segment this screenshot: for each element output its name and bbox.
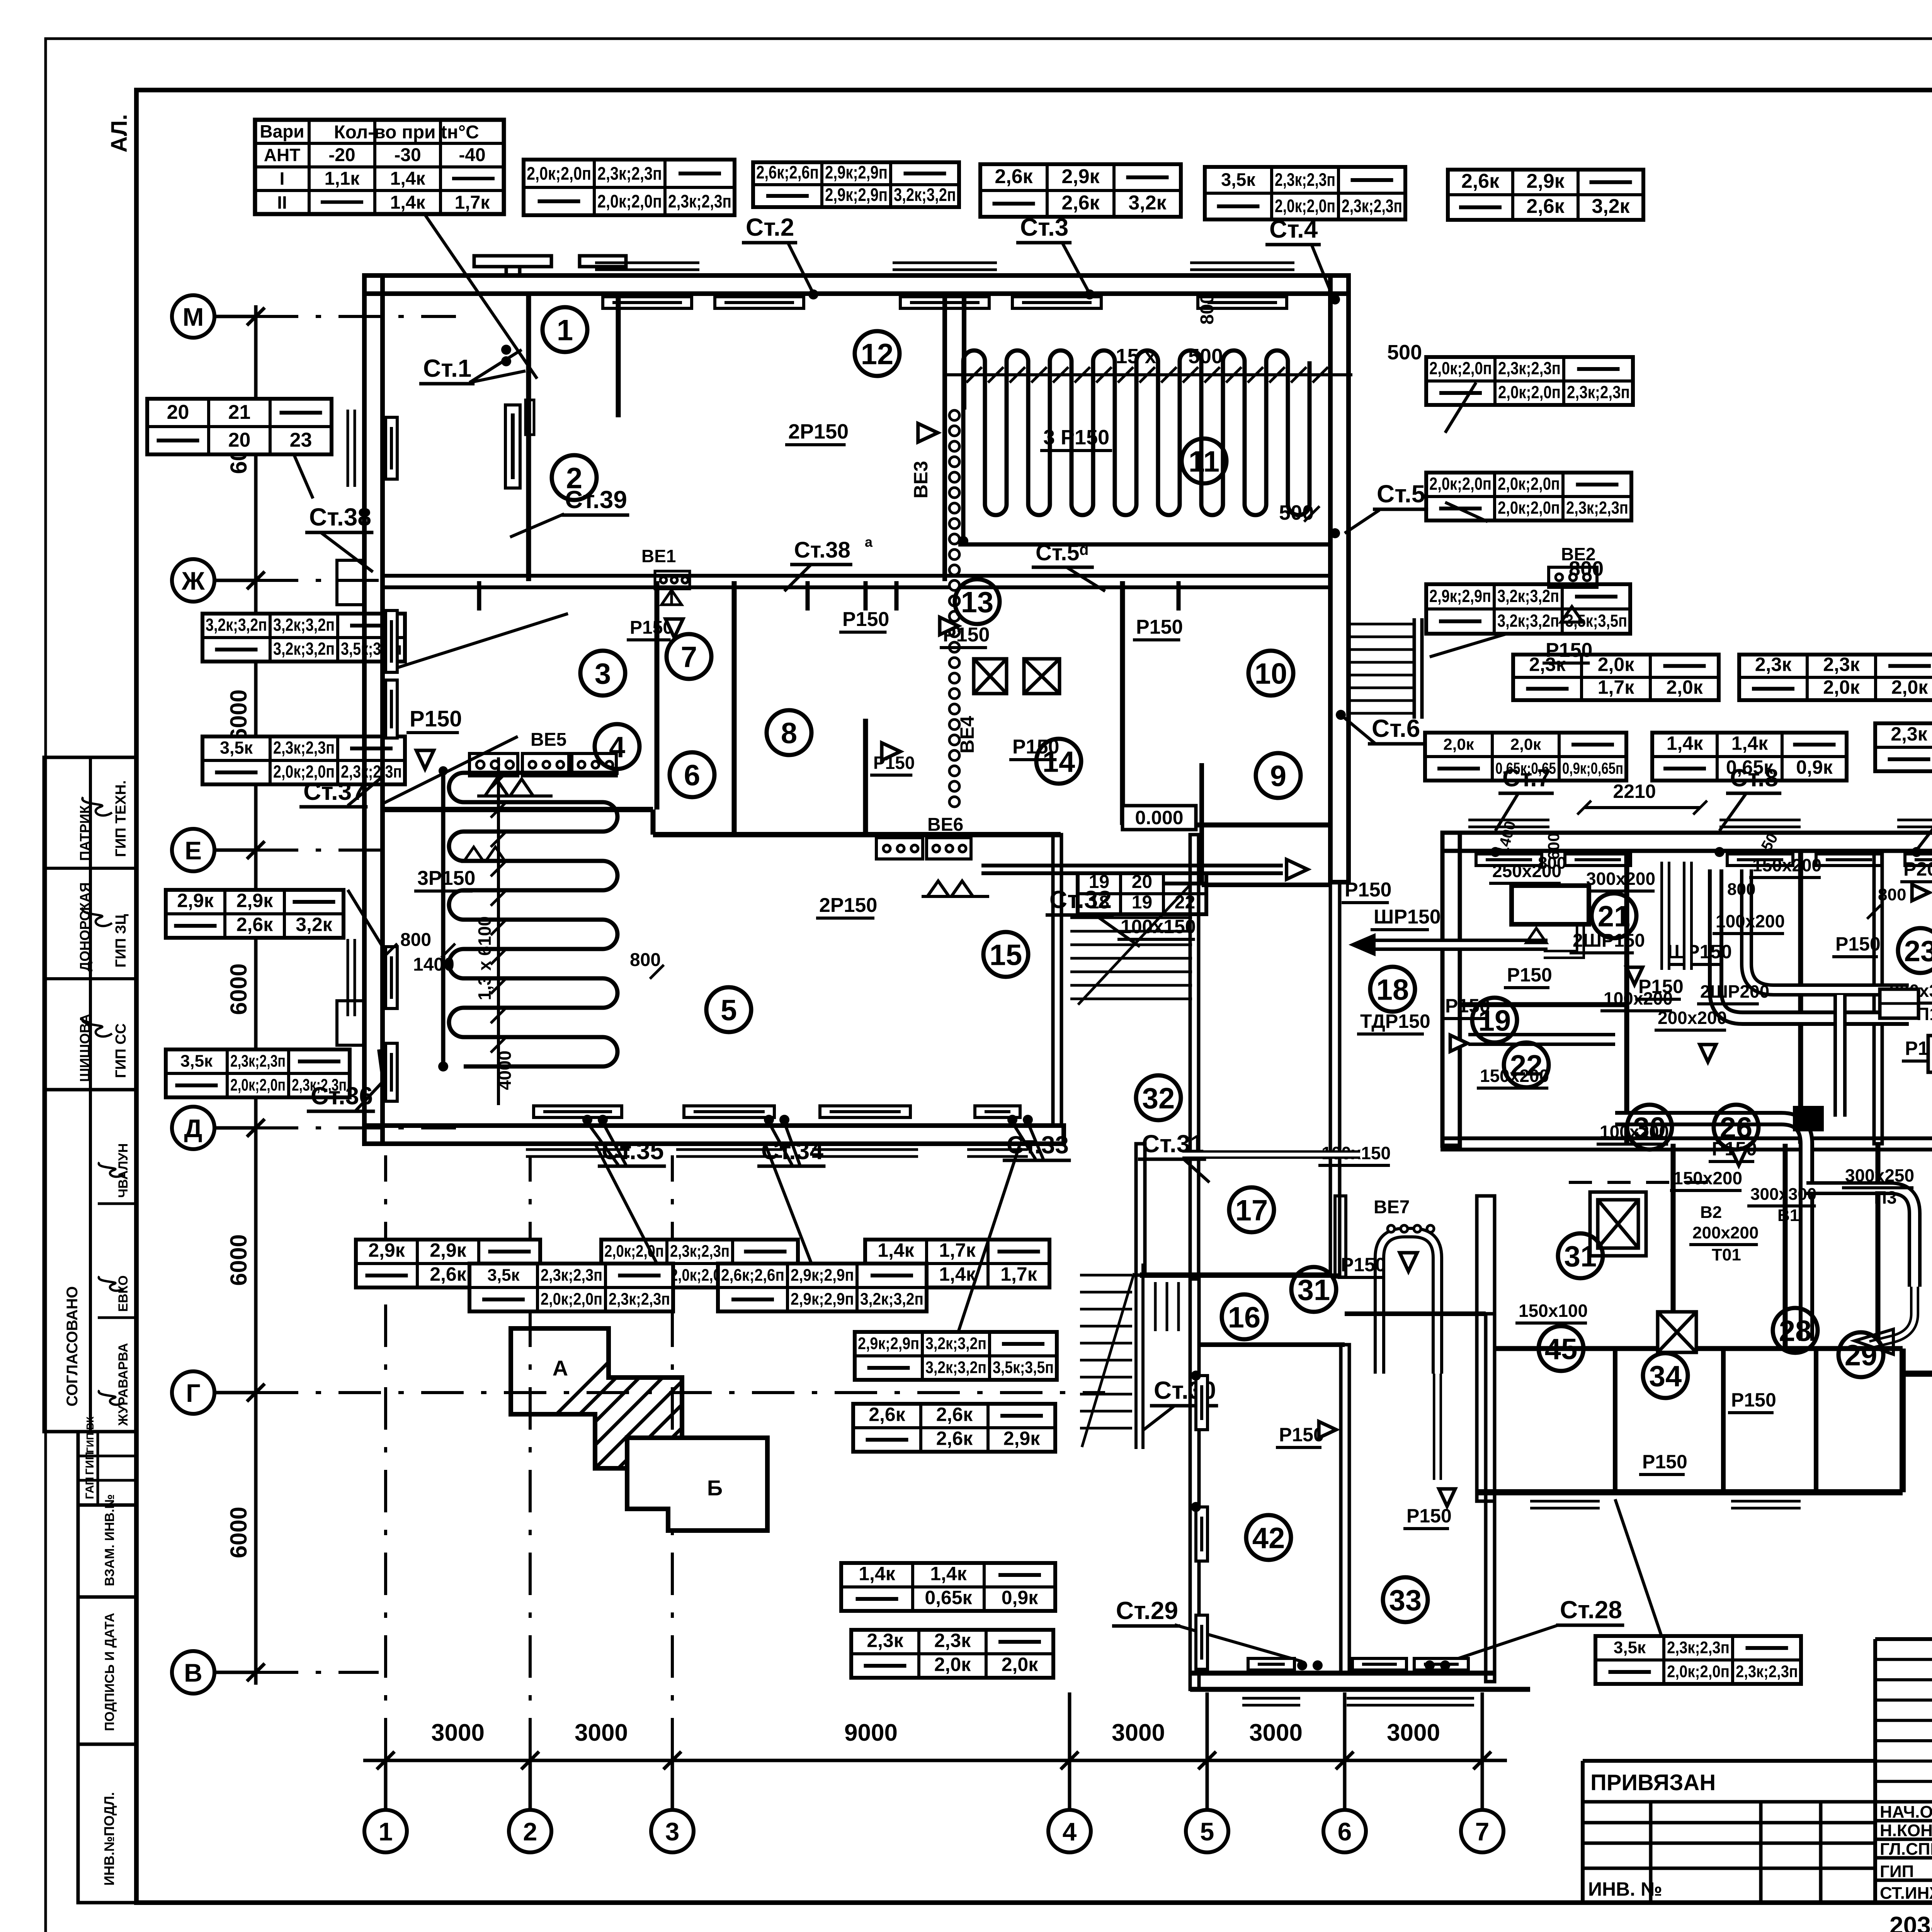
- VE1: [655, 571, 690, 589]
- svg-text:6: 6: [684, 759, 700, 792]
- svg-text:Ст.2: Ст.2: [746, 213, 794, 241]
- svg-text:СТ.ИНЖ.: СТ.ИНЖ.: [1880, 1884, 1932, 1903]
- svg-text:АЛ.: АЛ.: [107, 114, 132, 152]
- wall 34 v: [1613, 1349, 1617, 1492]
- svg-text:Р150: Р150: [1731, 1389, 1776, 1411]
- wall rooms9-10: [1122, 823, 1330, 828]
- svg-text:9000: 9000: [844, 1719, 898, 1746]
- svg-text:2,3к: 2,3к: [934, 1630, 971, 1651]
- svg-text:2,3к;2,3п: 2,3к;2,3п: [668, 191, 731, 211]
- room 15: [983, 932, 1028, 977]
- valve symbol: [1450, 1035, 1468, 1051]
- svg-text:-40: -40: [459, 145, 485, 165]
- wall 26-28: [1783, 1144, 1788, 1349]
- radiator: [715, 297, 804, 308]
- svg-text:2,3к;2,3п: 2,3к;2,3п: [1567, 383, 1630, 402]
- value table: [1425, 733, 1626, 781]
- svg-text:15: 15: [990, 939, 1022, 971]
- stamp vzam inv: [78, 1505, 136, 1597]
- valve symbol: [1319, 1422, 1336, 1438]
- radiator: [386, 1043, 397, 1101]
- stamp block signatures: [44, 757, 136, 1090]
- svg-text:ГИП СС: ГИП СС: [113, 1023, 129, 1078]
- svg-text:7: 7: [1475, 1817, 1490, 1846]
- stack label Ст.5ᵅ: [1032, 540, 1094, 567]
- stair room 15/32: [1070, 885, 1192, 1005]
- svg-text:ГИП ЗЦ: ГИП ЗЦ: [113, 914, 129, 968]
- valve near VE5: [417, 750, 434, 769]
- svg-text:2,3к: 2,3к: [1891, 723, 1928, 745]
- svg-text:ЖУРАВАРВА: ЖУРАВАРВА: [116, 1343, 131, 1426]
- svg-text:9: 9: [1270, 760, 1286, 793]
- label Р150: [1504, 964, 1552, 988]
- svg-text:Р150: Р150: [1642, 1451, 1687, 1473]
- room 32: [1136, 1075, 1181, 1120]
- svg-text:1,4к: 1,4к: [1667, 733, 1704, 754]
- vestibule right wall: [1330, 882, 1340, 1275]
- svg-text:10: 10: [1255, 657, 1287, 690]
- duct P2 main L: [1716, 869, 1909, 1018]
- bottom block top wall 42: [1199, 1342, 1345, 1347]
- room 9: [1256, 753, 1301, 798]
- room 10: [1248, 651, 1293, 696]
- svg-text:300х250: 300х250: [1845, 1165, 1914, 1185]
- svg-text:11: 11: [1189, 445, 1219, 478]
- room 23: [1898, 928, 1932, 973]
- svg-text:Ст.1: Ст.1: [423, 354, 471, 382]
- value table: [1875, 723, 1932, 771]
- VE5 heater unit: [469, 753, 518, 776]
- svg-text:17: 17: [1235, 1194, 1268, 1227]
- svg-text:ПАТРИК: ПАТРИК: [77, 805, 93, 861]
- entrance canopy 2: [580, 256, 626, 267]
- svg-text:Ст.5ᵅ: Ст.5ᵅ: [1036, 540, 1088, 565]
- label 100х200: [1600, 988, 1673, 1011]
- coil dim line 2: [497, 757, 500, 1105]
- title block: [1875, 1637, 1932, 1641]
- label Р150: [1635, 976, 1684, 999]
- svg-text:2,0к;2,0п: 2,0к;2,0п: [597, 191, 662, 211]
- svg-text:22: 22: [1510, 1049, 1543, 1082]
- svg-text:А: А: [553, 1356, 568, 1380]
- svg-text:2,3к;2,3п: 2,3к;2,3п: [541, 1266, 602, 1285]
- svg-text:2,0к: 2,0к: [1443, 735, 1474, 753]
- svg-text:15 х: 15 х: [1116, 345, 1156, 368]
- stack label Ст.36: [307, 1082, 375, 1111]
- radiator: [1727, 854, 1793, 866]
- svg-text:Р150: Р150: [1507, 964, 1552, 986]
- label 3 Р150: [1040, 426, 1112, 451]
- room 14: [1036, 739, 1081, 784]
- duct vestibule 100x150: [1182, 1150, 1360, 1159]
- wall 42-33: [1341, 1345, 1349, 1673]
- svg-text:1,4к: 1,4к: [878, 1240, 915, 1261]
- svg-text:Т01: Т01: [1712, 1245, 1741, 1264]
- svg-text:20384-02 8: 20384-02 8: [1889, 1912, 1932, 1932]
- svg-text:150х200: 150х200: [1673, 1168, 1742, 1188]
- value table: [1448, 170, 1643, 220]
- room 8: [767, 710, 811, 755]
- duct 200x200 down: [1615, 1119, 1806, 1341]
- value table: [851, 1630, 1053, 1678]
- left wing left exterior wall: [364, 276, 383, 1144]
- svg-text:3000: 3000: [1112, 1719, 1165, 1746]
- wall 21-23: [1874, 851, 1882, 1144]
- left wing bottom exterior wall: [364, 1126, 1064, 1144]
- value table: [202, 736, 405, 784]
- svg-text:200х200: 200х200: [1692, 1223, 1759, 1242]
- damper 3P150: [464, 847, 505, 862]
- label Р150: [1338, 1254, 1386, 1277]
- svg-text:1,4к: 1,4к: [939, 1264, 976, 1285]
- axis Д: [172, 1107, 214, 1149]
- svg-text:6000: 6000: [226, 1234, 252, 1286]
- axis 7: [1461, 1810, 1503, 1852]
- vestibule left wall: [1136, 1144, 1145, 1275]
- svg-text:3000: 3000: [1387, 1719, 1440, 1746]
- crossed duct box room 34: [1658, 1312, 1696, 1352]
- svg-text:31: 31: [1564, 1240, 1597, 1273]
- room 33: [1383, 1577, 1428, 1622]
- svg-text:20: 20: [228, 429, 251, 451]
- svg-text:30: 30: [1633, 1111, 1666, 1144]
- room 4: [595, 724, 639, 769]
- duct junction box: [1793, 1106, 1824, 1131]
- axis Е: [172, 829, 214, 871]
- label 100х200: [1597, 1122, 1669, 1144]
- svg-text:16: 16: [1228, 1301, 1261, 1334]
- value table: [853, 1404, 1055, 1452]
- svg-text:0,9к;0,65п: 0,9к;0,65п: [1562, 759, 1623, 777]
- valve symbol: [1912, 884, 1929, 901]
- kitchen mid horizontal wall: [1442, 1138, 1932, 1150]
- label Р150: [870, 753, 915, 775]
- svg-text:ШР150: ШР150: [1374, 906, 1441, 928]
- stamp podpis i data: [78, 1597, 136, 1744]
- damper symbol: [485, 779, 533, 796]
- svg-text:ВЕ5: ВЕ5: [531, 730, 566, 750]
- svg-text:ДОНОРСКАЯ: ДОНОРСКАЯ: [77, 882, 93, 971]
- door stubs corridor: [477, 581, 481, 611]
- label 200х200: [1655, 1008, 1727, 1030]
- radiator: [1414, 1658, 1468, 1670]
- stack label Ст.6: [1368, 714, 1423, 744]
- svg-text:Р150: Р150: [1341, 1254, 1386, 1276]
- label Р150: [1728, 1389, 1776, 1413]
- svg-text:НАЧ.ОТД.: НАЧ.ОТД.: [1880, 1803, 1932, 1821]
- svg-text:2,6к: 2,6к: [1461, 170, 1500, 192]
- value table: [841, 1563, 1055, 1611]
- value table: [1426, 473, 1631, 520]
- bottom dimension line: [363, 1759, 1507, 1762]
- stair right of left wing: [1350, 618, 1422, 719]
- svg-text:2,9к;2,9п: 2,9к;2,9п: [825, 184, 888, 205]
- svg-text:ЕВКО: ЕВКО: [116, 1276, 131, 1312]
- svg-text:3,2к: 3,2к: [1592, 195, 1630, 218]
- svg-text:1,4к: 1,4к: [1731, 733, 1769, 754]
- room 3: [580, 651, 625, 696]
- svg-text:18: 18: [1376, 973, 1409, 1006]
- room 29: [1838, 1332, 1883, 1377]
- label ШР150: [1664, 941, 1732, 964]
- svg-text:ГИП: ГИП: [1880, 1862, 1914, 1881]
- label 100х200: [1713, 911, 1785, 934]
- svg-text:31: 31: [1298, 1274, 1330, 1306]
- svg-text:2,0к: 2,0к: [1510, 735, 1541, 753]
- lift shaft: [1598, 1200, 1638, 1248]
- svg-text:2,0к: 2,0к: [1002, 1654, 1039, 1675]
- svg-text:1: 1: [557, 314, 573, 347]
- svg-text:2,0к;2,0п: 2,0к;2,0п: [230, 1076, 286, 1095]
- wall room7 right: [732, 581, 737, 835]
- svg-text:7: 7: [681, 641, 697, 673]
- radiator: [1198, 297, 1287, 308]
- stack label Ст.1: [419, 354, 474, 384]
- svg-text:2,9к: 2,9к: [1061, 165, 1100, 188]
- valve symbol: [1700, 1044, 1716, 1062]
- svg-text:2,9к;2,9п: 2,9к;2,9п: [791, 1266, 854, 1285]
- svg-text:2,9к: 2,9к: [368, 1240, 405, 1261]
- axis 6: [1323, 1810, 1366, 1852]
- stack label Ст.33: [1003, 1131, 1071, 1160]
- svg-text:6: 6: [1338, 1817, 1352, 1846]
- svg-text:2,0к;2,0п: 2,0к;2,0п: [1667, 1662, 1730, 1681]
- unit P2 box: [1512, 886, 1589, 924]
- wall 18-19: [1460, 1002, 1627, 1007]
- label 150х200: [1477, 1066, 1549, 1088]
- left porch 2: [337, 1001, 364, 1045]
- value table: [1739, 653, 1932, 700]
- variant header table: [255, 120, 504, 214]
- vestibule entry steps: [1155, 1282, 1179, 1331]
- axis 4: [1048, 1810, 1091, 1852]
- svg-text:2,6к;2,6п: 2,6к;2,6п: [756, 162, 819, 182]
- svg-text:2,9к: 2,9к: [1003, 1428, 1041, 1449]
- kitchen bottom step wall: [1900, 1349, 1906, 1492]
- svg-text:3: 3: [595, 657, 611, 690]
- value table: [469, 1264, 673, 1311]
- svg-text:20: 20: [167, 401, 189, 423]
- label 200х200: [1689, 1223, 1759, 1245]
- svg-text:Кол-во при tн°С: Кол-во при tн°С: [334, 122, 479, 143]
- axis 5: [1186, 1810, 1228, 1852]
- room 1: [543, 307, 587, 352]
- valve symbol: [1400, 1253, 1417, 1271]
- svg-text:300х300: 300х300: [1750, 1185, 1816, 1204]
- duct SHR150 room18: [1376, 939, 1548, 951]
- svg-text:ЧВАЛУН: ЧВАЛУН: [116, 1143, 131, 1198]
- svg-text:Р150: Р150: [1136, 616, 1183, 638]
- svg-text:2,3к: 2,3к: [867, 1630, 904, 1651]
- svg-text:2,6к: 2,6к: [1061, 192, 1100, 214]
- svg-text:2,3к;2,3п: 2,3к;2,3п: [1498, 359, 1561, 378]
- svg-text:2Р150: 2Р150: [788, 420, 849, 443]
- duct riser 23: [1833, 995, 1847, 1117]
- stack label Ст.8: [1726, 764, 1781, 793]
- svg-text:14: 14: [1043, 745, 1075, 778]
- label 150х100: [1515, 1301, 1588, 1323]
- radiator: [1012, 297, 1101, 308]
- svg-text:2,0к: 2,0к: [1598, 653, 1635, 675]
- svg-text:Ст.37: Ст.37: [303, 777, 366, 805]
- value table: [865, 1240, 1049, 1287]
- label Р150: [1902, 1037, 1932, 1061]
- label Р200: [1900, 858, 1932, 882]
- label Р150: [839, 608, 889, 632]
- svg-text:Р150: Р150: [1406, 1505, 1452, 1527]
- svg-text:Р150: Р150: [1546, 639, 1592, 662]
- duct 150x200 row: [1468, 1033, 1615, 1046]
- svg-text:0,9к: 0,9к: [1002, 1587, 1039, 1609]
- wall room7 left: [655, 581, 660, 810]
- svg-text:2,9к: 2,9к: [430, 1240, 467, 1261]
- coil return pipe: [958, 543, 1331, 547]
- room 21: [1592, 893, 1636, 938]
- svg-text:2,6к: 2,6к: [1526, 195, 1565, 218]
- label Р150: [1342, 879, 1391, 903]
- left wing right exterior wall: [1330, 276, 1349, 882]
- svg-text:а: а: [865, 534, 873, 550]
- duct VE7 loop: [1379, 1233, 1437, 1374]
- svg-text:Р150: Р150: [1835, 933, 1881, 955]
- svg-text:3000: 3000: [575, 1719, 628, 1746]
- svg-text:СОГЛАСОВАНО: СОГЛАСОВАНО: [64, 1286, 81, 1406]
- VE3 flex duct shaft: [949, 410, 959, 807]
- riser box 100x200: [1928, 1036, 1932, 1072]
- svg-text:2,6к: 2,6к: [430, 1264, 467, 1285]
- svg-text:Ст.38: Ст.38: [794, 537, 850, 563]
- shaft wall VE3 left: [942, 294, 947, 581]
- svg-text:ИНВ.№ПОДЛ.: ИНВ.№ПОДЛ.: [101, 1792, 117, 1886]
- svg-text:2,0к;2,0п: 2,0к;2,0п: [1498, 383, 1561, 402]
- svg-text:12: 12: [861, 338, 894, 371]
- svg-text:100х200: 100х200: [1716, 911, 1785, 931]
- duct inner L: [1747, 869, 1909, 990]
- svg-text:1,4к: 1,4к: [390, 192, 426, 213]
- label 300х300: [1886, 981, 1932, 1003]
- svg-text:Ст.3: Ст.3: [1020, 213, 1068, 241]
- elevation 0.000: [1122, 806, 1196, 830]
- label 250х200: [1489, 861, 1561, 883]
- room 19: [1472, 998, 1517, 1043]
- radiator: [1248, 1658, 1294, 1670]
- valve symbol: [882, 743, 900, 760]
- value table: [166, 890, 344, 938]
- valve symbol: [1626, 967, 1643, 985]
- room 31 kitchen: [1558, 1233, 1603, 1278]
- stack label Ст.30: [1150, 1376, 1218, 1406]
- svg-text:2Р150: 2Р150: [819, 894, 877, 917]
- svg-text:3,2к: 3,2к: [1128, 192, 1167, 214]
- svg-text:2,3к;2,3п: 2,3к;2,3п: [670, 1242, 730, 1261]
- room 34: [1643, 1353, 1688, 1398]
- stack label Ст.29: [1112, 1597, 1180, 1626]
- svg-text:ПРИВЯЗАН: ПРИВЯЗАН: [1590, 1770, 1716, 1795]
- table leader lines: [595, 1144, 657, 1264]
- valve symbol: [940, 617, 958, 635]
- svg-text:26: 26: [1720, 1111, 1753, 1144]
- stack label Ст.38: [790, 537, 852, 565]
- svg-text:II: II: [277, 192, 287, 213]
- svg-text:3,2к;3,2п: 3,2к;3,2п: [894, 184, 956, 205]
- svg-text:2: 2: [566, 462, 582, 495]
- svg-text:Ст.5: Ст.5: [1377, 480, 1425, 508]
- value table: [524, 160, 735, 215]
- svg-text:3,5к: 3,5к: [487, 1266, 520, 1285]
- wall 28 v: [1721, 1349, 1726, 1492]
- svg-text:2,0к: 2,0к: [1891, 676, 1929, 698]
- svg-text:ГЛ.СПЕЦ: ГЛ.СПЕЦ: [1880, 1840, 1932, 1859]
- svg-text:2,6к: 2,6к: [995, 165, 1033, 188]
- svg-text:Р150: Р150: [410, 706, 462, 731]
- wall room3-4: [383, 807, 653, 812]
- value table: [601, 1240, 798, 1287]
- svg-text:2,3к: 2,3к: [1823, 653, 1860, 675]
- label 300х250: [1842, 1165, 1914, 1188]
- svg-text:500: 500: [1188, 345, 1223, 368]
- svg-text:2210: 2210: [1613, 781, 1656, 802]
- coil feed pipe: [441, 769, 446, 1066]
- svg-text:33: 33: [1389, 1584, 1422, 1617]
- svg-text:1,7к: 1,7к: [939, 1240, 976, 1261]
- svg-text:2,6к: 2,6к: [936, 1404, 973, 1425]
- room 13: [955, 579, 1000, 624]
- svg-text:2,6к: 2,6к: [936, 1428, 973, 1449]
- stamp block gap gip: [78, 1432, 136, 1505]
- stack label Ст.32: [1046, 886, 1114, 915]
- svg-text:Р200: Р200: [1903, 858, 1932, 880]
- svg-text:19: 19: [1478, 1004, 1511, 1037]
- svg-text:800: 800: [400, 930, 431, 950]
- svg-text:3Р150: 3Р150: [417, 867, 475, 889]
- svg-text:0.000: 0.000: [1135, 807, 1183, 828]
- svg-text:6000: 6000: [226, 1507, 252, 1558]
- svg-text:2,3к;2,3п: 2,3к;2,3п: [1566, 498, 1628, 518]
- svg-text:800: 800: [1538, 854, 1566, 872]
- svg-text:2,3к;2,3п: 2,3к;2,3п: [609, 1290, 670, 1309]
- wall room2-12a: [616, 294, 621, 417]
- svg-text:5: 5: [1200, 1817, 1214, 1846]
- radiator: [386, 417, 397, 479]
- svg-text:4: 4: [1063, 1817, 1077, 1846]
- stack label Ст.3: [1016, 213, 1071, 243]
- svg-text:2ШР150: 2ШР150: [1573, 930, 1645, 951]
- radiator: [386, 947, 397, 1009]
- bottom block left wall: [1190, 1279, 1199, 1689]
- svg-text:0,65к: 0,65к: [925, 1587, 972, 1609]
- valve symbol: [1439, 1489, 1455, 1506]
- stamp block soglasovano: [44, 1090, 136, 1432]
- svg-text:2ШР200: 2ШР200: [1700, 981, 1769, 1002]
- svg-text:2,6к: 2,6к: [236, 914, 274, 935]
- label ТДР150: [1357, 1010, 1430, 1034]
- wall room15-stair: [1190, 835, 1199, 1275]
- svg-text:2,3к: 2,3к: [1755, 653, 1792, 675]
- svg-text:3,5к: 3,5к: [1614, 1638, 1646, 1657]
- wall room1-2: [526, 294, 531, 581]
- room 18: [1370, 967, 1415, 1012]
- duct riser pair 21: [1665, 862, 1688, 970]
- svg-text:Н.КОНТР.: Н.КОНТР.: [1880, 1821, 1932, 1840]
- svg-text:ВЕ1: ВЕ1: [641, 546, 676, 566]
- svg-text:500: 500: [1387, 341, 1422, 364]
- stack label Ст.5: [1373, 480, 1428, 509]
- label 300х200: [1583, 869, 1655, 891]
- room 5: [706, 987, 751, 1032]
- axis 1: [364, 1810, 407, 1852]
- svg-text:5: 5: [721, 994, 737, 1027]
- svg-text:800: 800: [1197, 294, 1218, 325]
